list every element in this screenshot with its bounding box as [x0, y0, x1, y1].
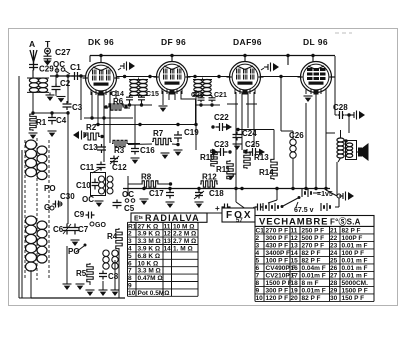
svg-text:0.01 m F: 0.01 m F	[342, 257, 368, 264]
svg-text:22: 22	[330, 235, 338, 242]
svg-text:T: T	[45, 39, 51, 49]
svg-text:C23: C23	[214, 140, 229, 149]
svg-text:C8: C8	[108, 272, 119, 281]
table RADIALVA header text	[134, 213, 200, 223]
svg-text:PO: PO	[44, 184, 56, 193]
wire screen bus left	[33, 111, 68, 120]
label C5	[124, 204, 135, 213]
resistor R3	[112, 140, 140, 146]
svg-text:67.5 v: 67.5 v	[294, 207, 314, 214]
label C19	[184, 128, 199, 137]
label R3	[114, 146, 125, 155]
svg-text:0.01m F: 0.01m F	[302, 287, 326, 294]
svg-text:300 P F: 300 P F	[266, 235, 289, 242]
label C20	[191, 92, 204, 99]
trimmer C7	[71, 224, 79, 235]
ground under C4	[48, 131, 57, 137]
label R12	[202, 173, 217, 182]
svg-text:82 P F: 82 P F	[302, 295, 321, 302]
svg-text:C11: C11	[80, 163, 95, 172]
wire transformer down	[324, 133, 337, 196]
svg-text:C4: C4	[56, 116, 67, 125]
svg-text:C15: C15	[146, 91, 159, 98]
svg-text:0.04m F: 0.04m F	[302, 265, 326, 272]
switch G contacts	[50, 202, 62, 210]
svg-text:R3: R3	[114, 146, 125, 155]
switch OC contacts	[55, 68, 70, 74]
svg-text:100P F: 100P F	[342, 235, 363, 242]
trimmer C25	[244, 148, 265, 156]
svg-text:C24: C24	[242, 129, 257, 138]
svg-text:DF 96: DF 96	[161, 37, 186, 47]
table VECHAMBRE header box	[255, 216, 374, 227]
svg-text:27 K Ω: 27 K Ω	[138, 223, 159, 230]
svg-text:0.01 m F: 0.01 m F	[342, 272, 368, 279]
capacitor C2	[52, 76, 61, 93]
wire link y124	[95, 123, 198, 126]
svg-text:2.2 M Ω: 2.2 M Ω	[173, 231, 196, 238]
ground under DF96	[159, 106, 168, 112]
table VECHAMBRE header text	[259, 216, 361, 227]
capacitor C12	[110, 156, 119, 165]
svg-text:C25: C25	[245, 140, 260, 149]
output jack J1	[350, 111, 365, 120]
label C3	[72, 103, 83, 112]
wire anode link 1	[117, 75, 157, 78]
resistor R13	[244, 149, 250, 169]
svg-text:27: 27	[330, 272, 338, 279]
svg-text:3.3 M Ω: 3.3 M Ω	[138, 238, 161, 245]
ground under C7	[71, 240, 80, 246]
svg-text:C6: C6	[53, 225, 64, 234]
svg-text:OC: OC	[82, 195, 94, 204]
svg-text:C27: C27	[55, 47, 71, 57]
wire HT bus	[123, 188, 330, 190]
wire J1 down	[348, 115, 350, 133]
junction grid wire	[55, 74, 82, 77]
label C23	[214, 140, 229, 149]
resistor R7	[128, 138, 178, 144]
capacitor C26	[290, 139, 296, 158]
svg-text:26: 26	[330, 265, 338, 272]
antenna A	[30, 50, 37, 70]
capacitor C1	[72, 72, 81, 80]
label OC2	[122, 190, 135, 202]
border frame	[9, 29, 398, 306]
svg-text:82 P F: 82 P F	[342, 227, 361, 234]
wire C24 to R14	[236, 128, 274, 158]
svg-text:C26: C26	[289, 131, 304, 140]
wire coil bottom	[19, 270, 31, 298]
label C18	[209, 189, 224, 198]
svg-text:8: 8	[128, 275, 132, 282]
label DK96	[88, 37, 114, 47]
svg-text:25: 25	[330, 257, 338, 264]
trimmer C22	[211, 123, 232, 131]
wire left col	[32, 92, 34, 115]
ground under R5	[86, 290, 95, 296]
table RADIALVA values	[128, 223, 196, 297]
svg-text:PO: PO	[68, 247, 80, 256]
ground right of C16	[161, 153, 170, 159]
svg-text:C1: C1	[70, 62, 81, 72]
label C29	[39, 65, 54, 74]
ground under C16	[131, 158, 140, 164]
svg-text:13: 13	[291, 242, 299, 249]
svg-text:9: 9	[128, 283, 132, 290]
label C30	[60, 192, 75, 201]
svg-text:C16: C16	[140, 146, 155, 155]
label C13	[83, 143, 98, 152]
svg-text:9: 9	[256, 287, 260, 294]
wire bottom drops	[67, 246, 119, 298]
label FOX	[226, 210, 253, 224]
wire anode link 3	[261, 75, 300, 78]
wire left rail	[19, 76, 22, 298]
resistor R12	[200, 181, 218, 187]
label C17	[149, 189, 164, 198]
ground under R11	[227, 174, 236, 180]
label OC3	[82, 195, 94, 204]
svg-text:15: 15	[291, 257, 299, 264]
ground under C19	[174, 150, 183, 156]
svg-text:6: 6	[128, 260, 132, 267]
table VECHAMBRE values	[256, 227, 369, 302]
capacitor C11	[97, 162, 106, 171]
box C10	[91, 173, 106, 196]
svg-text:17: 17	[291, 272, 299, 279]
coil core dashed	[25, 138, 49, 280]
label OC switch	[53, 60, 65, 69]
svg-text:0.47M Ω: 0.47M Ω	[138, 275, 163, 282]
capacitor C17	[166, 190, 174, 199]
svg-text:C5: C5	[124, 204, 135, 213]
svg-text:3: 3	[128, 238, 132, 245]
svg-text:A: A	[29, 39, 35, 49]
label C6	[53, 225, 64, 234]
svg-text:+: +	[215, 204, 220, 213]
svg-text:250 P F: 250 P F	[302, 227, 325, 234]
svg-text:3.9 K Ω: 3.9 K Ω	[138, 246, 161, 253]
ground under C2	[56, 92, 66, 103]
label DL96	[303, 37, 328, 47]
svg-text:R13: R13	[254, 153, 269, 162]
svg-text:300 P F: 300 P F	[266, 287, 289, 294]
svg-text:120 P F: 120 P F	[266, 295, 289, 302]
svg-text:270 P F: 270 P F	[266, 227, 289, 234]
wire anode link 2	[188, 75, 229, 78]
svg-text:Eᵗˢ: Eᵗˢ	[134, 216, 143, 223]
trimmer C6	[63, 224, 71, 235]
tuning coil L2 windings	[26, 140, 37, 271]
label C1	[70, 62, 81, 72]
wire T1 drops	[122, 101, 152, 125]
svg-text:C18: C18	[209, 189, 224, 198]
switch GO	[90, 222, 106, 229]
resistor R5	[87, 263, 93, 283]
svg-text:11: 11	[164, 223, 171, 230]
svg-text:1500 P F: 1500 P F	[266, 280, 292, 287]
battery B1	[302, 189, 311, 197]
ground under R1	[29, 133, 38, 139]
output transformer T3	[337, 130, 357, 162]
label C15	[146, 91, 159, 98]
wire C28 up	[334, 56, 336, 112]
capacitor filter plus	[215, 204, 231, 214]
svg-text:23: 23	[330, 242, 338, 249]
svg-text:R12: R12	[202, 173, 217, 182]
output arrow after DAF96	[264, 63, 279, 72]
wire DAF96 pins	[236, 92, 254, 189]
svg-text:430 P F: 430 P F	[266, 242, 289, 249]
svg-text:C7: C7	[78, 225, 89, 234]
svg-text:C19: C19	[184, 128, 199, 137]
switch PO	[76, 244, 87, 253]
tube V3 DAF96	[227, 62, 264, 95]
svg-text:C2: C2	[60, 79, 71, 88]
trimmer C14	[126, 95, 133, 102]
svg-text:100 P F: 100 P F	[266, 257, 289, 264]
label C26	[289, 131, 304, 140]
resistor R4	[116, 228, 122, 250]
wire DK96 pins	[92, 90, 116, 173]
svg-text:10: 10	[256, 295, 264, 302]
wire DK96 anode	[118, 68, 121, 70]
terminal T	[45, 48, 51, 54]
svg-text:10: 10	[128, 290, 136, 297]
label R4	[107, 232, 118, 241]
output arrow after DK96	[120, 62, 135, 71]
label PO2	[68, 247, 80, 256]
svg-text:2: 2	[256, 235, 260, 242]
svg-text:3.3 M Ω: 3.3 M Ω	[138, 268, 161, 275]
ground under L1	[46, 92, 55, 101]
label R14	[259, 168, 274, 177]
coil L4	[107, 176, 113, 194]
wire left HT drop	[67, 120, 69, 224]
svg-text:0.01 m F: 0.01 m F	[342, 265, 368, 272]
label R10	[200, 153, 215, 162]
output jack J2	[337, 192, 354, 201]
svg-text:C22: C22	[214, 113, 229, 122]
wire R8 vert	[127, 176, 129, 196]
svg-text:4: 4	[256, 250, 260, 257]
svg-text:28: 28	[330, 280, 338, 287]
svg-text:14: 14	[291, 250, 299, 257]
svg-text:C1: C1	[256, 227, 265, 234]
label C12	[112, 163, 127, 172]
box FOX	[222, 208, 255, 222]
label C7	[78, 225, 89, 234]
svg-text:18: 18	[291, 280, 299, 287]
label C28	[333, 103, 348, 112]
svg-text:100 P F: 100 P F	[342, 250, 365, 257]
capacitor C16	[131, 125, 139, 155]
label R13	[254, 153, 269, 162]
svg-text:C10: C10	[76, 181, 91, 190]
resistor R11	[227, 160, 233, 180]
svg-text:3.9 K Ω: 3.9 K Ω	[138, 231, 161, 238]
label 1v5	[317, 191, 333, 198]
svg-text:10 M Ω: 10 M Ω	[173, 223, 194, 230]
svg-text:F°ⓈS.A: F°ⓈS.A	[330, 216, 361, 226]
svg-text:R6: R6	[113, 97, 124, 106]
wire R6	[104, 107, 130, 109]
junction C28	[347, 113, 350, 116]
svg-text:C9: C9	[74, 210, 85, 219]
label C9	[74, 210, 85, 219]
svg-text:OC: OC	[122, 190, 134, 199]
ground under C10	[95, 201, 104, 207]
svg-text:12: 12	[291, 235, 299, 242]
capacitor C18	[194, 190, 204, 200]
svg-text:12: 12	[164, 231, 172, 238]
label R2	[86, 123, 97, 132]
tuning coil L3 windings	[37, 146, 47, 263]
wire C3 drop	[67, 76, 69, 103]
label C21	[214, 92, 227, 99]
svg-text:3400P F: 3400P F	[266, 250, 290, 257]
wire C26 drop	[281, 77, 293, 189]
label A	[29, 39, 35, 49]
label G	[44, 203, 50, 212]
capacitor C5	[113, 200, 122, 209]
capacitor C8	[99, 271, 107, 280]
wire DAF96 anode	[261, 68, 264, 70]
svg-text:5: 5	[128, 253, 132, 260]
IF transformer T2	[193, 78, 212, 98]
wire R8 leads	[128, 182, 172, 185]
resistor R8	[141, 181, 159, 187]
svg-text:C13: C13	[83, 143, 98, 152]
table RADIALVA grid	[128, 222, 199, 296]
trimmer C21	[209, 96, 216, 102]
svg-text:C30: C30	[60, 192, 75, 201]
svg-text:21: 21	[330, 227, 338, 234]
ground under C17	[166, 202, 175, 208]
artifact gray dash	[335, 32, 352, 34]
resistor R1	[30, 113, 36, 131]
svg-text:4: 4	[128, 246, 132, 253]
capacitor C29	[29, 62, 38, 71]
svg-text:R7: R7	[153, 129, 164, 138]
label C11	[80, 163, 95, 172]
svg-text:C17: C17	[149, 189, 164, 198]
wire bottom bus	[31, 297, 125, 299]
svg-text:10 K Ω: 10 K Ω	[138, 260, 159, 267]
capacitor C27	[44, 54, 52, 65]
wire T2 secondary drop	[195, 90, 197, 150]
svg-text:24: 24	[330, 250, 338, 257]
label PO1	[44, 184, 56, 193]
svg-text:G: G	[44, 203, 50, 212]
battery B2	[263, 203, 330, 211]
wire C28 left	[335, 112, 349, 115]
svg-text:8 m F: 8 m F	[302, 280, 319, 287]
svg-text:R5: R5	[76, 269, 87, 278]
tube V1 DK96	[83, 63, 120, 96]
svg-text:GO: GO	[95, 222, 106, 229]
label C8	[108, 272, 119, 281]
label C27	[55, 47, 71, 57]
label R6	[113, 97, 124, 106]
junction dots top bus	[99, 54, 314, 57]
wire DAF socket	[227, 103, 257, 105]
capacitor C4	[48, 114, 56, 125]
svg-text:82 P F: 82 P F	[302, 250, 321, 257]
svg-text:11: 11	[291, 227, 298, 234]
svg-text:19: 19	[291, 287, 299, 294]
capacitor C9	[86, 212, 95, 219]
label R11	[216, 165, 231, 174]
ground under DL96	[304, 96, 313, 102]
svg-text:5000CM.: 5000CM.	[342, 280, 369, 287]
wire DL96 pins	[306, 92, 326, 190]
capacitor C19	[174, 131, 182, 146]
ground under C18	[195, 202, 204, 208]
svg-text:30: 30	[330, 295, 338, 302]
svg-text:20: 20	[291, 295, 299, 302]
trimmer C20	[196, 96, 220, 107]
svg-text:270 P F: 270 P F	[302, 242, 325, 249]
svg-text:RADIALVA: RADIALVA	[145, 213, 200, 223]
wire top supply bus	[90, 56, 335, 66]
svg-text:DK 96: DK 96	[88, 37, 114, 47]
ground row	[63, 284, 120, 296]
wire FOX stub	[206, 212, 222, 214]
label R5	[76, 269, 87, 278]
wire misc verticals	[57, 66, 81, 120]
label 67v5	[294, 207, 314, 214]
resistor R6	[104, 104, 127, 110]
capacitor C30	[53, 201, 62, 208]
label C22	[214, 113, 229, 122]
label DF96	[161, 37, 186, 47]
label DAF96	[233, 37, 262, 47]
svg-text:57: 57	[236, 218, 243, 224]
junction screen bus	[31, 111, 69, 114]
svg-text:7: 7	[128, 268, 132, 275]
svg-text:C21: C21	[214, 92, 227, 99]
resistor R10	[211, 149, 217, 167]
wire battery links	[234, 187, 339, 212]
svg-text:2: 2	[128, 231, 132, 238]
label C4	[56, 116, 67, 125]
capacitor C28	[338, 111, 345, 119]
label R7	[153, 129, 164, 138]
label C16	[140, 146, 155, 155]
ground under C24	[233, 144, 242, 150]
svg-text:VECHAMBRE: VECHAMBRE	[259, 216, 328, 227]
antenna coil L1	[27, 78, 49, 92]
speaker SP	[357, 143, 369, 161]
svg-text:150 P F: 150 P F	[342, 295, 365, 302]
svg-text:1. M Ω: 1. M Ω	[173, 246, 193, 253]
ground mid	[140, 199, 149, 205]
trimmer C15	[138, 95, 145, 102]
coil C10 inner	[99, 176, 105, 194]
wire grid line	[50, 75, 86, 77]
svg-text:8: 8	[256, 280, 260, 287]
svg-text:7: 7	[256, 272, 260, 279]
label C24	[242, 129, 257, 138]
trimmer C23	[212, 148, 232, 156]
svg-text:500 P F: 500 P F	[302, 235, 325, 242]
svg-text:14: 14	[164, 246, 172, 253]
table RADIALVA header box	[131, 213, 207, 222]
svg-text:R2: R2	[86, 123, 97, 132]
wire link y118	[84, 116, 133, 119]
